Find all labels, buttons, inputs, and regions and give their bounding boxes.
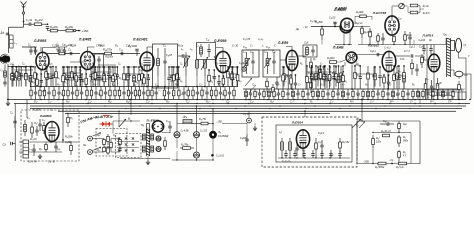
- node N142: [342, 65, 344, 67]
- choke Dr: [183, 120, 192, 124]
- wire tube4 drop: [222, 73, 224, 87]
- capacitor C33: [378, 67, 381, 87]
- resistor R56: [109, 87, 111, 100]
- inductor L22: [142, 134, 145, 140]
- resistor R13: [127, 67, 130, 87]
- resistor R119: [71, 67, 74, 87]
- inductor L12: [245, 89, 248, 100]
- resistor R9: [92, 67, 95, 87]
- capacitor C7: [70, 52, 72, 55]
- svg-text:C₉: C₉: [68, 48, 71, 52]
- node N218: [279, 105, 280, 106]
- svg-text:Л₇ECC85: Л₇ECC85: [372, 11, 387, 15]
- resistor R135: [393, 66, 396, 89]
- capacitor C44: [94, 87, 97, 100]
- ground GND2: [38, 154, 42, 159]
- svg-text:L₂: L₂: [1, 70, 3, 72]
- svg-text:R⁸⁴: R⁸⁴: [430, 100, 434, 104]
- svg-text:C₅₆: C₅₆: [243, 46, 247, 49]
- node N27: [171, 66, 173, 68]
- resistor R42: [403, 70, 406, 89]
- resistor R48: [43, 87, 45, 100]
- resistor R69: [201, 87, 203, 100]
- capacitor C32: [415, 64, 418, 76]
- resistor R28: [321, 27, 324, 41]
- node N191: [345, 99, 347, 101]
- inductor L8: [204, 60, 207, 76]
- node N101: [20, 66, 22, 68]
- capacitor C107: [294, 75, 297, 89]
- capacitor C53: [205, 87, 208, 100]
- svg-text:C₉⁄8: C₉⁄8: [304, 43, 309, 45]
- bias mid wire: [373, 132, 411, 134]
- fm heterodyne tube V12 circle: [152, 121, 163, 132]
- wire tube1 plate: [40, 47, 42, 51]
- tall coil in eye box: [23, 140, 29, 158]
- svg-text:R₉⁲: R₉⁲: [403, 152, 406, 154]
- resistor R102: [192, 122, 210, 125]
- svg-text:R₉: R₉: [396, 95, 399, 97]
- svg-text:C₉: C₉: [357, 75, 360, 77]
- node N185: [204, 99, 206, 101]
- resistor R39: [374, 67, 377, 87]
- resistor R29: [361, 27, 364, 39]
- resistor R129: [236, 67, 239, 87]
- node N146: [354, 65, 356, 67]
- phono jack J1: [88, 136, 93, 141]
- node N192: [367, 99, 369, 101]
- node N206: [329, 103, 330, 104]
- node N48: [361, 26, 362, 27]
- bandswitch levers under cans: [245, 78, 252, 86]
- resistor R72: [224, 87, 226, 100]
- svg-text:C₉ₔ20: C₉ₔ20: [329, 17, 336, 20]
- tube V11 EM80: [45, 122, 59, 142]
- svg-text:Л₁₀EФ12: Л₁₀EФ12: [146, 118, 159, 122]
- resistor R112: [399, 162, 407, 165]
- resistor R65: [173, 87, 175, 100]
- capacitor C57: [258, 89, 261, 100]
- resistor R144: [67, 113, 70, 127]
- svg-text:R₆⁨2,2к: R₆⁨2,2к: [356, 23, 364, 25]
- node N216: [209, 105, 210, 106]
- inductor L2: [18, 67, 21, 87]
- svg-text:Л₉EM80: Л₉EM80: [39, 114, 52, 118]
- node N46: [343, 44, 344, 45]
- svg-text:Л₉: Л₉: [217, 131, 221, 134]
- svg-text:R₄₂30к: R₄₂30к: [65, 25, 74, 29]
- terminal +150: [76, 30, 81, 32]
- capacitor C86: [66, 67, 69, 87]
- power transformer TR1 core: [146, 129, 149, 156]
- wire AVC bus lower: [65, 112, 330, 114]
- inductor L30: [133, 67, 136, 87]
- svg-text:R₇ⁱ47к: R₇ⁱ47к: [423, 12, 431, 15]
- resistor R75: [263, 89, 265, 100]
- wire tube5 out: [298, 55, 306, 57]
- node N19: [109, 66, 111, 68]
- resistor R110: [398, 150, 401, 164]
- inductor L7: [196, 60, 199, 76]
- node N21: [146, 86, 148, 88]
- svg-text:Rₑ: Rₑ: [356, 64, 359, 66]
- wire fm bottom rail: [358, 44, 420, 46]
- resistor R118: [62, 67, 65, 87]
- svg-text:R₆: R₆: [29, 79, 32, 81]
- resistor R71: [215, 87, 217, 100]
- node N140: [333, 65, 335, 67]
- wire tube10 top: [433, 45, 435, 55]
- node N223: [89, 108, 90, 109]
- switch contact 7: [118, 149, 120, 151]
- wire fm right down: [413, 40, 415, 45]
- svg-text:C₉ 0,01: C₉ 0,01: [216, 155, 225, 158]
- capacitor C10: [78, 67, 81, 87]
- node N226: [199, 108, 200, 109]
- resistor R117: [55, 67, 58, 87]
- svg-text:R₁150к: R₁150к: [106, 56, 114, 59]
- svg-text:R₉: R₉: [125, 80, 128, 82]
- capacitor C80: [295, 143, 298, 156]
- wire heater bus 1: [30, 105, 466, 107]
- node N123: [138, 66, 140, 68]
- node N107: [55, 66, 57, 68]
- red tick: [103, 114, 109, 116]
- resistor R53: [86, 87, 88, 100]
- svg-text:R₃: R₃: [140, 64, 143, 66]
- node N103: [30, 66, 32, 68]
- resistor R73: [233, 87, 235, 100]
- capacitor C13: [121, 52, 123, 55]
- capacitor C15: [163, 48, 166, 76]
- svg-text:C₉ 4): C₉ 4): [243, 113, 249, 116]
- wire to tube4 grid: [214, 56, 216, 60]
- svg-text:L₂: L₂: [284, 81, 286, 83]
- svg-text:R₇: R₇: [316, 95, 319, 97]
- wire to ukv jack: [222, 123, 247, 125]
- lamp HL5: [156, 146, 161, 151]
- wire tube2 drop: [85, 69, 87, 87]
- wire mains feed: [113, 120, 140, 122]
- capacitor C60: [296, 89, 299, 100]
- svg-text:C₅₈: C₅₈: [266, 46, 270, 49]
- resistor R114: [25, 67, 28, 87]
- capacitor C105: [147, 75, 150, 87]
- svg-text:R₁₁270к: R₁₁270к: [103, 48, 113, 52]
- capacitor C21: [251, 52, 254, 74]
- coil left of tube: [147, 124, 150, 133]
- node N227: [235, 108, 236, 109]
- capacitor C19: [178, 54, 190, 57]
- ext input jack: [242, 67, 246, 71]
- wire AGC bus: [14, 103, 470, 105]
- wire tube5 drop: [291, 71, 293, 89]
- resistor R121: [94, 67, 97, 87]
- node N98: [391, 163, 393, 165]
- resistor R97: [110, 140, 113, 150]
- node N228: [269, 108, 270, 109]
- node N69: [89, 138, 91, 140]
- trimmer arrow can T2: [243, 58, 250, 68]
- svg-text:L₆: L₆: [190, 48, 192, 51]
- resistor R36: [404, 31, 407, 45]
- lamp HL2: [194, 132, 200, 138]
- wire long left vertical: [14, 104, 16, 162]
- svg-text:R₈⁳: R₈⁳: [412, 84, 415, 86]
- svg-text:C₃⁴: C₃⁴: [48, 100, 52, 104]
- svg-text:C₅: C₅: [158, 90, 161, 92]
- resistor R80: [322, 89, 324, 100]
- node N132: [282, 66, 284, 68]
- svg-text:Л₅EФ9: Л₅EФ9: [277, 41, 288, 45]
- svg-text:C₉: C₉: [286, 75, 289, 77]
- capacitor C24: [325, 73, 328, 88]
- resistor R79: [312, 89, 314, 100]
- svg-text:R₅⁴: R₅⁴: [166, 100, 170, 104]
- capacitor C39: [34, 87, 37, 100]
- capacitor C113: [311, 150, 314, 158]
- node N229: [305, 108, 306, 109]
- resistor R103: [180, 147, 194, 150]
- node N215: [174, 105, 175, 106]
- resistor R132: [319, 66, 322, 89]
- resistor R113: [15, 67, 18, 87]
- resistor R14: [141, 67, 144, 87]
- phono jack switch levers: [93, 133, 102, 137]
- svg-text:R₇⁰1к: R₇⁰1к: [423, 5, 430, 8]
- node N20: [114, 66, 116, 68]
- inductor L13: [268, 89, 271, 100]
- node N33: [231, 66, 233, 68]
- IF can lower leads: [157, 76, 159, 87]
- node N181: [109, 99, 111, 101]
- capacitor C111: [293, 150, 296, 158]
- node N151: [85, 73, 87, 75]
- capacitor C75: [38, 119, 41, 131]
- wire lamp bottom return: [172, 159, 213, 161]
- resistor R125: [138, 67, 141, 87]
- svg-text:R₉⁲: R₉⁲: [39, 148, 42, 151]
- capacitor C68: [396, 89, 399, 100]
- resistor R66: [178, 87, 180, 100]
- node N183: [164, 99, 166, 101]
- wire tube7 right link: [353, 26, 370, 28]
- svg-text:R₉: R₉: [32, 82, 35, 84]
- bias net frame: [357, 121, 420, 164]
- UKV bottom rail: [278, 157, 350, 159]
- tuning dial drum: [0, 54, 10, 64]
- inductor L10: [266, 52, 269, 74]
- node N2: [47, 23, 49, 25]
- capacitor C66: [376, 89, 379, 100]
- resistor R11: [114, 67, 117, 87]
- node N160: [15, 66, 16, 67]
- capacitor C49: [155, 87, 158, 100]
- svg-text:C₆: C₆: [203, 90, 206, 92]
- inductor L20: [442, 89, 445, 100]
- capacitor C108: [387, 75, 390, 89]
- resistor R137: [354, 66, 357, 89]
- resistor R64: [163, 87, 165, 100]
- resistor R85: [382, 89, 384, 100]
- svg-text:R₉: R₉: [127, 77, 130, 79]
- capacitor C4: [29, 67, 32, 87]
- resistor R100: [107, 146, 110, 155]
- capacitor C34: [372, 66, 375, 89]
- wire tube10 drop: [433, 72, 435, 90]
- node N114: [95, 66, 97, 68]
- wire ukv drop: [304, 111, 306, 117]
- svg-text:C₇: C₇: [49, 78, 52, 80]
- svg-text:Cₑ: Cₑ: [320, 64, 323, 66]
- node N221: [384, 105, 385, 106]
- svg-text:R₆⁧100к: R₆⁧100к: [356, 12, 365, 14]
- svg-text:R₇: R₇: [216, 64, 219, 66]
- node N87: [315, 157, 316, 158]
- wire interstage y54 right: [352, 54, 384, 56]
- tube V3 ECH81: [140, 52, 154, 71]
- capacitor C1: [24, 23, 35, 26]
- capacitor C94: [177, 67, 180, 87]
- node N109: [67, 66, 69, 68]
- resistor R20: [310, 58, 313, 73]
- ground GND3: [146, 160, 150, 165]
- svg-text:Тр₁: Тр₁: [141, 124, 145, 127]
- svg-text:C₉: C₉: [163, 45, 166, 48]
- node N108: [62, 66, 64, 68]
- svg-text:R₄: R₄: [98, 93, 101, 96]
- node N11: [85, 86, 87, 88]
- antenna coil box: [10, 35, 14, 48]
- wire frame corner 2: [430, 95, 452, 99]
- node N12: [63, 66, 65, 68]
- node N100: [16, 66, 18, 68]
- inductor L27: [289, 138, 292, 158]
- resistor R126: [173, 67, 176, 87]
- capacitor C28: [333, 22, 336, 26]
- svg-text:C₉: C₉: [109, 69, 112, 71]
- node N184: [185, 99, 187, 101]
- node N167: [102, 66, 103, 67]
- node N111: [75, 66, 77, 68]
- wire caps rail: [28, 46, 37, 48]
- node N153: [148, 74, 150, 76]
- node N99: [11, 66, 13, 68]
- svg-text:R₇⁶: R₇⁶: [350, 100, 354, 104]
- resistor R130: [282, 67, 285, 89]
- resistor R82: [352, 89, 354, 100]
- node N38: [311, 66, 313, 68]
- node N95: [398, 132, 399, 133]
- svg-text:C₅⁸: C₅⁸: [186, 100, 190, 104]
- node N172: [231, 66, 232, 67]
- node N199: [129, 103, 130, 104]
- ps bottom wire: [120, 158, 170, 160]
- capacitor C95: [213, 70, 216, 87]
- svg-text:R₉ 1М: R₉ 1М: [30, 139, 36, 141]
- node N217: [244, 105, 245, 106]
- node N147: [359, 65, 361, 67]
- node N74: [130, 99, 132, 101]
- node N76: [196, 105, 197, 106]
- node N189: [293, 99, 295, 101]
- node N42: [335, 66, 337, 68]
- capacitor C63: [336, 89, 339, 100]
- svg-text:Л₉6П14: Л₉6П14: [422, 34, 434, 38]
- svg-text:→10: →10: [302, 25, 308, 29]
- resistor R127: [208, 70, 211, 87]
- bias net top wire: [357, 120, 420, 122]
- resistor R49: [53, 87, 55, 100]
- node N35: [291, 88, 293, 90]
- capacitor C41: [57, 87, 60, 100]
- resistor R108: [383, 134, 390, 137]
- resistor R12: [105, 52, 112, 55]
- wire drop x362: [361, 100, 363, 122]
- node N220: [349, 105, 350, 106]
- node N51: [404, 44, 405, 45]
- node N32: [222, 86, 224, 88]
- node N84: [289, 157, 290, 158]
- svg-text:C₆: C₆: [180, 81, 183, 83]
- svg-text:C₆: C₆: [256, 92, 259, 94]
- capacitor C114: [320, 150, 323, 158]
- svg-text:R₉ 7Ва: R₉ 7Ва: [181, 144, 189, 146]
- node N25: [157, 86, 159, 88]
- capacitor C83: [380, 122, 394, 125]
- resistor R122: [103, 67, 106, 87]
- resistor R18: [266, 78, 269, 92]
- svg-text:C⁸⁶: C⁸⁶: [448, 100, 452, 104]
- wire box internals: [19, 141, 78, 143]
- resistor R143: [383, 75, 386, 89]
- svg-text:Л₆EM4б: Л₆EM4б: [334, 7, 348, 11]
- capacitor C72: [446, 89, 449, 100]
- resistor R32: [410, 11, 418, 14]
- IF transformer can T1: [153, 44, 178, 88]
- wire stage1 bottom tie: [12, 64, 14, 67]
- wire cathode bus: [58, 110, 456, 112]
- svg-text:R₇⁳: R₇⁳: [320, 84, 323, 86]
- node N80: [176, 159, 177, 160]
- svg-text:C₁: C₁: [64, 82, 67, 84]
- capacitor C30: [408, 32, 411, 45]
- resistor R81: [332, 89, 334, 100]
- capacitor C5: [51, 67, 54, 87]
- wire top right feed: [311, 26, 341, 28]
- resistor R26: [335, 67, 338, 87]
- node N155: [223, 75, 225, 77]
- node N116: [103, 66, 105, 68]
- svg-text:R₉: R₉: [340, 77, 343, 79]
- resistor R98: [119, 139, 122, 147]
- resistor R3: [57, 29, 73, 32]
- capacitor C64: [346, 89, 349, 100]
- node N29: [185, 86, 187, 88]
- node N178: [40, 99, 42, 101]
- svg-text:C₇ 5000: C₇ 5000: [96, 45, 105, 48]
- node N170: [135, 66, 136, 67]
- wire R67 links: [355, 16, 360, 24]
- svg-text:C₉100: C₉100: [419, 40, 426, 42]
- node N79: [212, 123, 214, 125]
- svg-text:L₉: L₉: [243, 51, 245, 54]
- cluster tie wires: [12, 75, 30, 77]
- wire trimmer net: [404, 5, 407, 8]
- capacitor C104: [80, 74, 83, 87]
- IF can behind tube2: [95, 54, 104, 80]
- svg-text:C₄: C₄: [17, 71, 20, 74]
